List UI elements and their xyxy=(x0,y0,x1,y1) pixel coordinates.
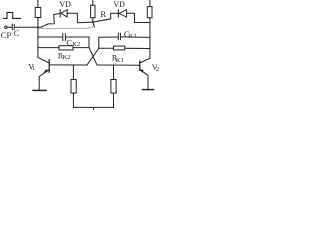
svg-text:1: 1 xyxy=(32,65,35,72)
svg-text:R: R xyxy=(100,9,106,19)
svg-text:VD: VD xyxy=(113,0,125,9)
svg-text:C: C xyxy=(14,29,19,38)
svg-text:CP: CP xyxy=(1,30,12,40)
svg-text:2: 2 xyxy=(156,66,159,73)
svg-text:K2: K2 xyxy=(72,41,80,48)
svg-text:K1: K1 xyxy=(129,33,137,40)
svg-text:VD: VD xyxy=(59,0,71,9)
svg-text:K1: K1 xyxy=(116,57,124,64)
svg-text:K2: K2 xyxy=(63,54,71,61)
